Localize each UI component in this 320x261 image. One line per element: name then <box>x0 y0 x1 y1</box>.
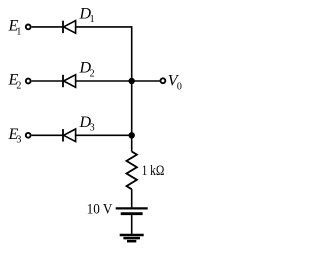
wire E2 to D2 <box>32 80 63 82</box>
label V0 <box>168 72 182 92</box>
wire D3 to bus <box>76 134 132 136</box>
battery 10V positive plate <box>116 207 148 209</box>
diode D1 <box>63 21 76 34</box>
label 1 kOhm <box>142 163 165 179</box>
svg-text:1: 1 <box>90 14 95 25</box>
junction node at D2 <box>129 78 135 84</box>
wire bus to output <box>132 80 160 82</box>
svg-text:1: 1 <box>16 26 21 37</box>
wire resistor to battery <box>131 189 133 207</box>
label D1 <box>79 5 95 25</box>
ground <box>120 235 144 241</box>
diode D2 <box>63 75 76 88</box>
wire battery to ground <box>131 215 133 234</box>
svg-text:10 V: 10 V <box>87 201 113 217</box>
svg-text:0: 0 <box>177 82 182 93</box>
wire D1 to bus <box>76 26 132 28</box>
wire E3 to D3 <box>32 134 63 136</box>
input terminal E3 <box>26 133 31 138</box>
svg-text:3: 3 <box>16 135 21 146</box>
output terminal V0 <box>161 78 166 83</box>
svg-text:1 kΩ: 1 kΩ <box>142 163 165 179</box>
diode D3 <box>63 129 76 142</box>
resistor R 1 kOhm <box>127 152 137 190</box>
wire vertical bus <box>131 26 133 151</box>
wire E1 to D1 <box>32 26 63 28</box>
label D2 <box>79 60 95 80</box>
battery 10V negative plate <box>121 212 143 215</box>
input terminal E1 <box>26 25 31 30</box>
svg-text:2: 2 <box>90 68 95 79</box>
input terminal E2 <box>26 79 31 84</box>
label D3 <box>79 114 95 134</box>
label E2 <box>8 72 22 92</box>
svg-text:2: 2 <box>16 80 21 91</box>
label E3 <box>8 126 22 146</box>
svg-text:3: 3 <box>90 123 95 134</box>
junction node at D3 <box>129 132 135 138</box>
wire D2 to bus <box>76 80 132 82</box>
label E1 <box>8 18 22 38</box>
label 10 V <box>87 201 113 217</box>
